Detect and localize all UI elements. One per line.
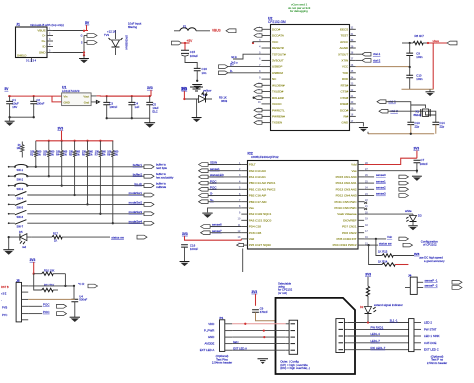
J1 shield stub: [31, 58, 33, 63]
nc marks pwc: [364, 202, 367, 210]
tag sense0: [399, 175, 409, 179]
capacitor C5: [149, 96, 151, 102]
svg-text:PB3 C17 AIN: PB3 C17 AIN: [249, 200, 267, 204]
tag row 3: [144, 184, 154, 188]
wire bank rail: [36, 131, 114, 141]
svg-text:Vss: Vss: [249, 206, 255, 210]
capacitor C9b: [409, 42, 411, 44]
ground: [9, 117, 11, 121]
junction: [83, 54, 85, 56]
tag row 7: [144, 221, 154, 225]
svg-text:RXD: RXD: [342, 77, 349, 81]
J3 pin 2: [414, 328, 421, 330]
svg-text:10K: 10K: [107, 151, 112, 153]
switch S6: [8, 213, 10, 215]
svg-text:PW STAT: PW STAT: [424, 327, 437, 331]
svg-text:1K R13: 1K R13: [378, 249, 388, 253]
resistor R13: [376, 239, 382, 256]
svg-text:hex exclusivity: hex exclusivity: [156, 176, 174, 180]
svg-text:TSTOUT#: TSTOUT#: [272, 52, 286, 56]
svg-text:buffer2: buffer2: [133, 172, 143, 176]
tag xtal-1: [356, 53, 362, 55]
TVS diode D4: [115, 30, 117, 55]
J3 pin 3: [414, 335, 421, 337]
svg-text:R11 51K: R11 51K: [44, 283, 54, 287]
status row: ground: [3, 249, 14, 251]
wire 5V stub: [84, 25, 88, 31]
J5 pin 1: [22, 285, 29, 287]
wire row vdd salmon: [232, 323, 286, 325]
svg-text:GND: GND: [208, 335, 214, 339]
svg-text:LED 2: LED 2: [424, 321, 432, 325]
svg-text:TVS: TVS: [104, 33, 109, 37]
svg-text:LEDL.7: LEDL.7: [371, 339, 381, 343]
svg-text:0 1 2 3 4: 0 1 2 3 4: [26, 59, 37, 63]
svg-text:1%: 1%: [76, 155, 79, 157]
junction dot left: [253, 97, 255, 99]
svg-text:SW-3: SW-3: [17, 187, 24, 191]
tag GND2: [84, 42, 87, 44]
tag GND1: [84, 35, 87, 37]
svg-text:D5: D5: [19, 230, 23, 234]
svg-text:1uF: 1uF: [135, 105, 140, 109]
svg-text:R10 10K: R10 10K: [44, 269, 55, 273]
switch S1: [8, 166, 10, 168]
svg-text:G: G: [81, 35, 83, 38]
tag row 2: [144, 174, 154, 178]
svg-text:ELC: ELC: [152, 109, 157, 113]
svg-text:XTIN: XTIN: [341, 59, 348, 63]
J3 pin 1: [414, 322, 421, 324]
svg-text:filtering: filtering: [128, 25, 137, 29]
tag sense6: [201, 225, 211, 229]
wire S-: [208, 195, 241, 197]
resistor R3: [48, 141, 50, 151]
wire an2: [364, 188, 374, 190]
svg-text:PD13 CN3 AN2: PD13 CN3 AN2: [336, 187, 357, 191]
svg-text:PB2 C16 AIP: PB2 C16 AIP: [249, 194, 267, 198]
wire POC: [208, 182, 241, 184]
svg-text:DCD#: DCD#: [340, 108, 348, 112]
svg-text:+5V: +5V: [187, 39, 194, 43]
wire an3: [364, 195, 374, 197]
svg-text:F1: F1: [183, 25, 187, 29]
tag Vdc: [399, 237, 409, 241]
tag S-: [199, 194, 209, 198]
tag S+: [199, 200, 209, 204]
svg-text:*C R: *C R: [78, 282, 84, 286]
switch S2: [8, 175, 10, 177]
ground: [429, 89, 431, 91]
wire 5V rail: [8, 96, 62, 102]
tag xtal-2 b: [379, 109, 388, 113]
crystal X1: [423, 109, 429, 117]
svg-text:+3 E: +3 E: [1, 292, 7, 296]
svg-text:extend signal indicator: extend signal indicator: [374, 303, 403, 307]
ground: [144, 122, 155, 124]
resistor R16: [367, 277, 369, 286]
svg-text:Vin: Vin: [64, 95, 68, 99]
J2 pin 1: [225, 323, 232, 325]
svg-text:xtal-1: xtal-1: [373, 52, 381, 56]
wire S+: [208, 201, 241, 203]
svg-text:PD6 CN22: PD6 CN22: [342, 231, 357, 235]
svg-text:DSR#: DSR#: [340, 102, 348, 106]
svg-text:senseP -2: senseP -2: [425, 284, 438, 288]
big box outline: [276, 298, 356, 374]
J1 pins: [47, 30, 53, 32]
svg-text:PD11 CN5 PWC: PD11 CN5 PWC: [335, 200, 358, 204]
svg-text:Vdd: Vdd: [351, 163, 357, 167]
capacitor C10: [409, 67, 411, 76]
tag senseP1: [452, 281, 462, 285]
svg-text:P_PWR: P_PWR: [204, 329, 214, 333]
tag xtal-2: [356, 59, 362, 61]
svg-text:PYC: PYC: [2, 313, 7, 317]
wire column: [35, 157, 37, 167]
tag sense3: [399, 194, 409, 198]
svg-text:Vss: Vss: [351, 169, 357, 173]
svg-text:1%: 1%: [50, 155, 53, 157]
connector J1 (mini-USB): [16, 27, 48, 58]
svg-text:AGND: AGND: [340, 46, 350, 50]
wire an0: [364, 176, 374, 178]
tag status sw2: [403, 243, 413, 247]
svg-text:PD15 CN1 AN0: PD15 CN1 AN0: [336, 175, 357, 179]
ground j5: [70, 316, 80, 318]
svg-text:RTS#: RTS#: [341, 83, 349, 87]
wire C15 to C16: [185, 56, 197, 68]
IC1 left tags: [254, 28, 262, 31]
capacitor C8: [73, 286, 75, 299]
capacitor C13: [407, 122, 414, 124]
svg-text:103n: 103n: [416, 77, 423, 81]
svg-text:PC8 C1B: PC8 C1B: [249, 231, 262, 235]
gnd net vertical: [53, 36, 84, 56]
svg-text:D3: D3: [418, 214, 422, 218]
J4 pin1 wire: [417, 281, 423, 283]
svg-text:USBDM: USBDM: [272, 71, 283, 75]
svg-text:Gnd: Gnd: [84, 101, 90, 105]
svg-text:10K: 10K: [56, 151, 61, 153]
svg-text:TEST: TEST: [341, 34, 349, 38]
svg-text:1%: 1%: [89, 155, 92, 157]
svg-text:of CP2102: of CP2102: [423, 243, 437, 247]
wire gnd bottom: [402, 88, 434, 90]
resistor R6: [87, 141, 89, 151]
svg-text:1%: 1%: [63, 155, 66, 157]
J5 pin 2: [22, 291, 29, 293]
wire an1: [364, 182, 374, 184]
tag row 6: [144, 212, 154, 216]
svg-text:calibrate: calibrate: [156, 185, 167, 189]
junction: [83, 51, 85, 53]
svg-text:rst in: rst in: [231, 55, 237, 59]
svg-text:3V3: 3V3: [182, 232, 188, 236]
svg-text:100nF: 100nF: [109, 105, 117, 109]
capacitor C3: [106, 96, 108, 102]
svg-text:10K: 10K: [69, 151, 74, 153]
wire column: [112, 157, 114, 224]
svg-text:sense3: sense3: [376, 192, 386, 196]
wire VBUS from J1: [53, 30, 84, 32]
svg-text:+12 1K: +12 1K: [107, 30, 116, 34]
svg-text:for debugging: for debugging: [290, 9, 308, 13]
tag D-: [219, 71, 229, 75]
svg-text:R8 4K7: R8 4K7: [415, 34, 425, 38]
svg-text:PD4 CN24 PWC2: PD4 CN24 PWC2: [333, 243, 357, 247]
wire d2 down: [367, 314, 369, 323]
svg-text:J1: J1: [16, 23, 20, 27]
svg-text:16V: 16V: [12, 105, 17, 109]
junction: [83, 30, 85, 32]
svg-text:DIOVREF: DIOVREF: [343, 218, 357, 222]
svg-text:VBUS: VBUS: [37, 29, 45, 33]
svg-text:3V3: 3V3: [365, 273, 371, 277]
wire p25 drop: [242, 249, 244, 273]
svg-text:LED 1 SINK: LED 1 SINK: [424, 334, 440, 338]
svg-text:(or not): (or not): [278, 291, 287, 295]
svg-text:Vout: Vout: [83, 95, 89, 99]
wire column: [61, 157, 63, 186]
capacitor C4: [131, 96, 133, 102]
tag POC: [199, 188, 209, 192]
J5 pin 3: [22, 298, 29, 300]
svg-text:status sw: status sw: [111, 235, 124, 239]
svg-text:470nF: 470nF: [260, 310, 268, 314]
J5 pin 4: [22, 305, 29, 307]
svg-text:SW-1: SW-1: [17, 168, 24, 172]
svg-text:2.54mm header: 2.54mm header: [212, 361, 232, 365]
svg-text:1%: 1%: [102, 155, 105, 157]
ground d3: [408, 225, 417, 227]
tag POC1: [57, 304, 67, 308]
svg-text:bat.t: bat.t: [233, 340, 238, 344]
svg-text:100nF: 100nF: [36, 101, 44, 105]
svg-text:modeSw4: modeSw4: [129, 219, 143, 223]
IC2 right pins: [358, 164, 364, 166]
svg-text:C8051F340GQFP32: C8051F340GQFP32: [251, 155, 279, 159]
tag p25: [237, 244, 244, 247]
ground flat: [190, 87, 203, 91]
svg-text:PD14 CN2 AN1: PD14 CN2 AN1: [336, 181, 357, 185]
capacitor C16a: [194, 68, 201, 70]
wire r14 vbus: [395, 264, 408, 266]
svg-text:Vdd: Vdd: [249, 237, 255, 241]
svg-text:buffer to: buffer to: [156, 172, 166, 176]
svg-text:TXD: TXD: [342, 71, 349, 75]
wire r10 to row1: [64, 274, 66, 286]
wire xtal2: [388, 111, 436, 122]
svg-text:PD7 CN21: PD7 CN21: [342, 225, 357, 229]
svg-text:10K: 10K: [95, 151, 100, 153]
wire j5 row5: [28, 313, 42, 315]
svg-text:VBUS: VBUS: [212, 29, 221, 33]
IC U2 body: [271, 25, 350, 131]
resistor R7: [99, 141, 101, 151]
svg-text:RXLED#: RXLED#: [272, 96, 284, 100]
svg-text:sense0: sense0: [376, 173, 386, 177]
ground: [359, 127, 368, 129]
svg-text:buffer to: buffer to: [156, 162, 166, 166]
svg-text:SHIELD: SHIELD: [17, 54, 26, 58]
svg-text:SW-6: SW-6: [17, 215, 24, 219]
svg-text:PWRCTL: PWRCTL: [272, 108, 285, 112]
svg-text:3V3: 3V3: [30, 258, 36, 262]
tag +5V: [172, 41, 182, 45]
svg-text:D+: D+: [42, 39, 46, 43]
tag sense1: [199, 169, 209, 173]
wire row 4: [27, 194, 144, 196]
capacitor C15: [184, 43, 186, 50]
svg-text:PA2 C132 SQC1: PA2 C132 SQC1: [249, 212, 272, 216]
tag row 4: [144, 193, 154, 197]
red drop from vbus: [432, 43, 434, 89]
svg-text:EXT LED.A: EXT LED.A: [233, 346, 247, 350]
svg-text:modeSw1: modeSw1: [129, 191, 143, 195]
wire +5V: [182, 42, 190, 44]
svg-text:3V3OUT: 3V3OUT: [272, 59, 284, 63]
svg-text:WLDEN#: WLDEN#: [272, 83, 285, 87]
U1 out pin: [91, 96, 96, 102]
svg-text:TXDEN: TXDEN: [272, 121, 282, 125]
wire xtal1: [386, 102, 426, 122]
IC1 right pins: [350, 28, 356, 30]
svg-text:USBDP: USBDP: [272, 65, 282, 69]
tag status sw: [137, 235, 147, 239]
resistor R2: [35, 141, 37, 151]
svg-text:senseP -1: senseP -1: [425, 279, 438, 283]
J5 pin 5: [22, 313, 29, 315]
fuse F1: [174, 30, 210, 32]
wire column: [74, 157, 76, 195]
svg-text:next byte: next byte: [156, 166, 167, 170]
wire VCC to C9: [356, 66, 410, 68]
svg-text:XTOUT: XTOUT: [338, 52, 348, 56]
svg-text:3V3: 3V3: [252, 290, 258, 294]
svg-text:xtal-2: xtal-2: [373, 58, 381, 62]
svg-text:SP0503BAH: SP0503BAH: [125, 35, 129, 50]
wire xtal gnd: [368, 125, 436, 134]
capacitor C7: [414, 160, 421, 162]
svg-text:3V3: 3V3: [58, 127, 64, 131]
svg-text:P3LT: P3LT: [249, 163, 256, 167]
svg-text:3V3: 3V3: [147, 86, 153, 90]
wire j5 row3: [28, 298, 75, 300]
svg-text:DCD#: DCD#: [272, 27, 280, 31]
svg-text:3v3 o: 3v3 o: [231, 60, 238, 64]
capacitor C2: [33, 96, 35, 101]
J2 pin 4: [225, 343, 232, 345]
tag sense1: [399, 181, 409, 185]
svg-text:GND: GND: [342, 121, 350, 125]
svg-text:mini-usb-B with (top only): mini-usb-B with (top only): [30, 23, 64, 27]
svg-text:1%: 1%: [114, 155, 117, 157]
svg-text:100uF: 100uF: [190, 54, 198, 58]
tag SDIN: [199, 163, 209, 167]
svg-text:3L1 -1: 3L1 -1: [390, 319, 398, 323]
svg-text:22p: 22p: [440, 124, 445, 128]
svg-text:Vdc: Vdc: [387, 235, 393, 239]
wire 3v3 c9: [255, 294, 257, 306]
svg-text:RI#: RI#: [344, 115, 349, 119]
wire row p_pwr: [232, 330, 286, 332]
svg-text:modeSw3: modeSw3: [129, 210, 143, 214]
wire column: [48, 157, 50, 177]
wire pwc2 row: [364, 244, 378, 246]
J2 pin 2: [225, 330, 232, 332]
IC1 left pins: [262, 28, 271, 30]
svg-text:SW-4: SW-4: [17, 196, 24, 200]
svg-text:AVCC: AVCC: [340, 40, 349, 44]
svg-text:AVDDE: AVDDE: [205, 342, 215, 346]
ground c7: [412, 175, 422, 177]
svg-text:R17: R17: [53, 232, 58, 236]
ground: [180, 261, 190, 263]
resistor R14: [369, 245, 382, 264]
wire row 6: [27, 213, 144, 215]
svg-text:PWREN#: PWREN#: [272, 115, 285, 119]
svg-text:100nF: 100nF: [190, 247, 198, 251]
svg-text:CP2102-GM: CP2102-GM: [268, 20, 286, 24]
tag statusLED: [199, 175, 209, 179]
wire 3v3 rail: [96, 95, 149, 97]
svg-text:modeSw2: modeSw2: [129, 201, 143, 205]
tag senseP2: [452, 286, 462, 290]
tag sense2: [399, 188, 409, 192]
svg-text:500nF: 500nF: [79, 298, 87, 302]
wire C16 down: [196, 71, 198, 81]
svg-text:DTR#: DTR#: [340, 96, 348, 100]
svg-text:bu-ch: bu-ch: [134, 182, 142, 186]
wire statusLED: [208, 176, 241, 178]
svg-text:0603: 0603: [221, 99, 228, 103]
IC2 left pins: [241, 164, 247, 166]
J4 pin2 wire: [417, 287, 423, 289]
tag vbus: [447, 41, 457, 45]
wire row 2: [27, 175, 144, 177]
svg-text:a good accuracy: a good accuracy: [424, 259, 445, 263]
connector P3 internal right: [336, 319, 345, 353]
wire column: [99, 157, 101, 214]
wire row 7: [27, 222, 144, 224]
svg-text:P25 C127 SQ33: P25 C127 SQ33: [249, 243, 271, 247]
svg-text:D-: D-: [42, 34, 45, 38]
svg-text:PD10 CN6 PWC: PD10 CN6 PWC: [334, 206, 357, 210]
connector P2 internal left: [289, 320, 298, 354]
svg-text:sense1: sense1: [376, 179, 386, 183]
svg-text:VDD: VDD: [208, 322, 214, 326]
svg-text:1%: 1%: [37, 155, 40, 157]
IC IC2 body: [248, 161, 359, 250]
wire POC: [208, 188, 241, 190]
wire vdd red: [185, 236, 242, 240]
svg-text:POC: POC: [43, 303, 50, 307]
svg-text:RST B: RST B: [1, 285, 9, 289]
tag D+: [219, 65, 229, 69]
svg-text:SW-7: SW-7: [17, 225, 24, 229]
resistor R8: [112, 141, 114, 151]
svg-text:103n: 103n: [416, 55, 423, 59]
tag POC2: [57, 312, 67, 316]
svg-text:EXT LED A: EXT LED A: [200, 348, 215, 352]
wire c9 down: [256, 312, 277, 321]
svg-text:-: -: [1, 300, 2, 303]
svg-text:100nF: 100nF: [420, 162, 428, 166]
svg-text:10K: 10K: [43, 151, 48, 153]
wire row 3: [27, 185, 144, 187]
wire row 5: [27, 203, 144, 205]
